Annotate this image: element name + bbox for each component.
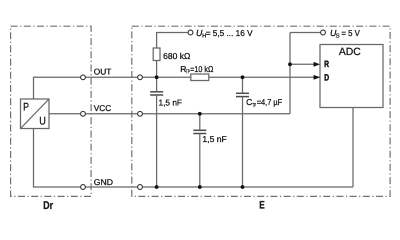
svg-text:OUT: OUT: [94, 66, 112, 76]
svg-text:S: S: [336, 32, 340, 39]
wire: OUT line inside E to R_TP: [140, 76, 191, 78]
capacitor C_TP = 4,7 uF: [236, 93, 249, 96]
svg-text:ADC: ADC: [339, 46, 361, 58]
wire: OUT line from Dr to E: [83, 76, 140, 78]
arrowhead into D input: [314, 75, 320, 80]
capacitor 1,5 nF (on VCC line): [193, 130, 206, 133]
wire: sensor bottom lead to GND: [34, 129, 84, 188]
wire: U_H supply branch: [157, 33, 188, 49]
svg-text:= 5,5 ... 16 V: = 5,5 ... 16 V: [206, 28, 253, 38]
resistor R_TP = 10 kOhm: [191, 74, 209, 81]
arrowhead into R input: [314, 62, 320, 67]
terminal VCC (sensor side): [81, 111, 86, 116]
wire: C_TP bottom lead: [242, 97, 244, 187]
junction cap2 on GND rail: [198, 185, 202, 189]
wire: ADC ground lead: [352, 108, 354, 188]
terminal GND (ECU side): [138, 185, 143, 190]
svg-text:U: U: [39, 115, 46, 127]
wire: VCC line from Dr to E: [83, 113, 140, 115]
wire: cap2 top lead: [199, 114, 201, 131]
wire: cap1 top lead: [156, 77, 158, 92]
svg-text:R: R: [324, 59, 329, 69]
svg-text:D: D: [324, 72, 329, 82]
capacitor 1,5 nF (on OUT line): [150, 92, 163, 95]
wire: sensor top lead to OUT node: [34, 77, 84, 99]
svg-text:E: E: [259, 200, 265, 212]
wire: signal line from R_TP to ADC D input: [209, 76, 320, 78]
ECU box E (dash-dot border): [132, 26, 390, 196]
svg-text:1,5 nF: 1,5 nF: [202, 134, 226, 144]
wire: sensor right lead VCC: [49, 113, 83, 115]
wire: cap1 bottom lead: [156, 95, 158, 187]
svg-text:TP: TP: [252, 103, 256, 109]
terminal U_S supply: [321, 30, 326, 35]
sensor housing box Dr (dash-dot border): [11, 26, 92, 196]
wire: GND rail inside E: [140, 186, 353, 188]
terminal OUT (ECU side): [138, 75, 143, 80]
svg-text:Dr: Dr: [43, 200, 54, 212]
junction cap1 on GND rail: [155, 185, 159, 189]
terminal GND (sensor side): [81, 185, 86, 190]
junction at VCC cap node: [198, 112, 202, 116]
wire: 680k resistor to OUT node: [156, 61, 158, 78]
svg-text:= 5 V: = 5 V: [341, 28, 360, 38]
wire: GND line from Dr to E: [83, 186, 140, 188]
wire: U_S supply wire: [290, 32, 321, 34]
wire: reference line to ADC R input: [290, 63, 315, 65]
ADC block U1: [320, 45, 383, 108]
terminal U_H supply: [188, 30, 193, 35]
junction at OUT node: [155, 75, 159, 79]
svg-text:VCC: VCC: [94, 103, 111, 113]
svg-text:GND: GND: [94, 177, 113, 187]
wire: cap2 bottom lead: [199, 134, 201, 188]
svg-text:1,5 nF: 1,5 nF: [159, 97, 183, 107]
wire: U_S vertical branch to VCC: [289, 33, 291, 114]
wire: C_TP top lead: [242, 77, 244, 93]
terminal OUT (sensor side): [81, 75, 86, 80]
svg-text:=4,7 µF: =4,7 µF: [257, 97, 283, 107]
junction at C_TP node: [241, 75, 245, 79]
svg-text:=10 kΩ: =10 kΩ: [190, 64, 213, 74]
terminal VCC (ECU side): [138, 111, 143, 116]
junction C_TP on GND rail: [241, 185, 245, 189]
pressure sensor element P/U: [21, 99, 50, 129]
svg-text:680 kΩ: 680 kΩ: [163, 51, 190, 61]
junction at R reference tap: [288, 62, 292, 66]
wire: VCC rail inside E: [140, 113, 290, 115]
svg-text:P: P: [23, 102, 29, 114]
resistor 680 kOhm: [153, 48, 160, 61]
